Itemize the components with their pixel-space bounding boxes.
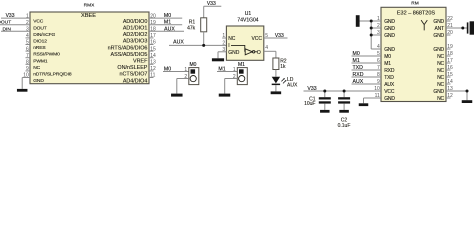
svg-text:ON/nSLEEP: ON/nSLEEP (117, 65, 147, 71)
resistor R2 1k (273, 58, 287, 70)
svg-text:VCC: VCC (251, 36, 262, 42)
svg-text:V33: V33 (275, 33, 284, 39)
svg-text:AD1/DIO1: AD1/DIO1 (123, 26, 148, 32)
ground at U1 (212, 58, 224, 61)
wire LED to ground (275, 85, 277, 91)
net DIN to XBEE pin 3 (1, 26, 30, 32)
junction V33/C2 (343, 90, 346, 93)
svg-text:1: 1 (184, 67, 187, 73)
svg-text:AD3/DIO3: AD3/DIO3 (123, 39, 148, 45)
U1 pin 1 NC stub (222, 37, 226, 39)
svg-text:47k: 47k (187, 25, 196, 31)
svg-text:NC: NC (228, 36, 236, 42)
svg-text:0.1uF: 0.1uF (338, 123, 351, 129)
antenna connector (467, 21, 474, 34)
svg-text:M0: M0 (384, 54, 391, 60)
svg-text:NC: NC (437, 61, 444, 67)
resistor R1 47k (187, 18, 207, 32)
junction V33/C1 (323, 90, 326, 93)
net AUX to E32 (352, 79, 382, 85)
svg-text:TXD: TXD (384, 75, 394, 81)
svg-text:VCC: VCC (33, 19, 44, 25)
svg-text:RSSI/PWM0: RSSI/PWM0 (33, 52, 60, 58)
svg-text:DIO12: DIO12 (33, 39, 47, 45)
svg-text:GND: GND (384, 47, 395, 53)
XBEE pin names and numbers (23, 13, 156, 84)
svg-text:TXD: TXD (353, 65, 364, 71)
junction pin2 bus (370, 27, 373, 30)
junction on ANT wire (461, 27, 464, 30)
svg-text:AUX: AUX (173, 40, 184, 46)
svg-text:74V1G04: 74V1G04 (237, 18, 258, 24)
svg-text:RMX: RMX (84, 2, 95, 8)
svg-text:M1: M1 (164, 20, 171, 26)
svg-text:E32 – 868T20S: E32 – 868T20S (397, 11, 436, 17)
net M0 to E32 (352, 51, 382, 57)
ground at M0 (171, 94, 183, 97)
svg-text:NC: NC (437, 96, 444, 102)
XBEE right no-connect stubs pins 17-11 (149, 38, 154, 78)
wire U1 pin 3 GND to ground (218, 52, 226, 59)
svg-text:NC: NC (33, 65, 40, 71)
inverter U1 74V1G04 (222, 11, 268, 60)
svg-text:RXD: RXD (384, 68, 395, 74)
svg-text:AD2/DIO2: AD2/DIO2 (123, 32, 148, 38)
ground at C1 (320, 110, 330, 113)
power flag V33 above R1 (204, 1, 222, 7)
wire M1 pin 2 to ground (225, 79, 238, 94)
svg-text:AUX: AUX (353, 79, 364, 85)
net DOUT to XBEE pin 2 (0, 20, 30, 26)
antenna symbol inside E32 (421, 20, 427, 30)
svg-text:O: O (257, 50, 261, 56)
net RXD to E32 (352, 72, 382, 78)
svg-text:GND: GND (228, 50, 240, 56)
svg-text:M1: M1 (238, 62, 245, 68)
ground at C2 (339, 110, 349, 113)
ground at E32 pin 13 (462, 100, 473, 103)
svg-text:GND: GND (384, 33, 395, 39)
sideways ground at E32 pins 1-3 (356, 15, 360, 27)
net V33 at U1 VCC pin 5 (264, 33, 288, 39)
wire R1 to AUX net (203, 32, 205, 46)
junction AUX/R1 (202, 44, 205, 47)
svg-text:ASS/AD5/DIO5: ASS/AD5/DIO5 (111, 52, 148, 58)
svg-text:GND: GND (433, 47, 444, 53)
wire XBEE pin 10 to ground (22, 78, 30, 89)
connector M1 (233, 62, 247, 84)
capacitor C2 0.1uF (338, 91, 351, 129)
svg-text:XBEE: XBEE (81, 13, 96, 19)
ground at E32 pin 11 (359, 103, 369, 106)
svg-text:V33: V33 (307, 86, 316, 92)
ground at XBEE pin 10 (17, 89, 28, 92)
svg-text:M1: M1 (218, 67, 225, 73)
svg-text:GND: GND (33, 78, 44, 84)
ground at LED (271, 91, 282, 94)
svg-text:nCTS/DIO7: nCTS/DIO7 (120, 72, 148, 78)
svg-text:NC: NC (437, 75, 444, 81)
svg-text:V33: V33 (207, 1, 216, 7)
junction pin1 bus (370, 20, 373, 23)
svg-text:VREF: VREF (133, 59, 148, 65)
svg-text:NC: NC (437, 68, 444, 74)
wire R2 to LED (275, 70, 277, 77)
svg-text:nRTS/AD6/DIO6: nRTS/AD6/DIO6 (108, 45, 148, 51)
svg-text:M1: M1 (384, 61, 391, 67)
wire M0 pin 2 to ground (177, 79, 189, 94)
wire U1 output pin 4 to R2 (264, 51, 276, 58)
net M1 to E32 (352, 58, 382, 64)
wire E32 pin 13 GND to ground (446, 91, 467, 100)
svg-text:1k: 1k (280, 64, 286, 70)
svg-text:nRES: nRES (33, 45, 46, 51)
wire E32 pin 11 GND to ground (364, 98, 382, 103)
junction pin3 bus (370, 34, 373, 37)
svg-text:M0: M0 (164, 67, 171, 73)
svg-text:GND: GND (433, 89, 444, 95)
svg-text:VCC: VCC (384, 89, 395, 95)
svg-text:4: 4 (265, 45, 268, 51)
wire V33 to R1 (203, 6, 205, 17)
svg-text:M0: M0 (164, 13, 171, 19)
svg-text:I: I (228, 43, 229, 49)
svg-text:GND: GND (384, 19, 395, 25)
svg-text:10uF: 10uF (304, 101, 315, 107)
svg-text:NC: NC (437, 54, 444, 60)
svg-text:V33: V33 (6, 13, 15, 19)
svg-text:AD4/DIO4: AD4/DIO4 (123, 78, 148, 84)
net V33 to XBEE pin 1 (1, 13, 30, 19)
svg-text:M0: M0 (353, 51, 360, 57)
net M0 from XBEE pin 20 (149, 13, 182, 19)
net AUX from XBEE pin 18 (149, 26, 184, 32)
svg-text:RXD: RXD (353, 72, 364, 78)
svg-text:DIN/nCFG: DIN/nCFG (33, 32, 55, 38)
net V33 to E32 VCC pin 10 (304, 86, 382, 92)
svg-text:GND: GND (384, 96, 395, 102)
svg-text:M1: M1 (353, 58, 360, 64)
XBEE module RMX (30, 2, 149, 83)
svg-text:DOUT: DOUT (33, 25, 47, 31)
svg-text:DIN: DIN (2, 26, 11, 32)
svg-text:GND: GND (433, 19, 444, 25)
XBEE left no-connect stubs pins 4-9 (26, 38, 31, 71)
RF module RM E32-868T20S (381, 1, 446, 102)
wires E32 pins 1-4 to ground bus (360, 21, 381, 49)
svg-text:DOUT: DOUT (0, 20, 11, 26)
net M1 from XBEE pin 19 (149, 20, 182, 26)
capacitor C1 10uF (304, 91, 331, 110)
svg-text:nDTR/SLPRQ/DI8: nDTR/SLPRQ/DI8 (33, 72, 72, 78)
svg-text:2: 2 (222, 41, 225, 47)
svg-text:NC: NC (437, 82, 444, 88)
net M0 wire to connector M0 (163, 67, 189, 73)
net TXD to E32 (352, 65, 382, 71)
svg-text:GND: GND (433, 33, 444, 39)
junction on pin 13 wire (466, 90, 469, 93)
net M1 wire to connector M1 (217, 67, 237, 73)
E32 pin names and numbers (374, 16, 453, 102)
svg-text:ANT: ANT (434, 26, 444, 32)
wire E32 ANT pin 21 to antenna connector (446, 27, 468, 29)
svg-text:PWM1: PWM1 (33, 58, 48, 64)
net AUX wire to U1 input (169, 40, 226, 46)
LED LD AUX (272, 77, 298, 89)
ground at M1 (219, 94, 231, 97)
svg-text:1: 1 (233, 67, 236, 73)
svg-text:AUX: AUX (384, 82, 395, 88)
svg-text:AUX: AUX (287, 83, 298, 89)
svg-text:AD0/DIO0: AD0/DIO0 (123, 19, 148, 25)
svg-text:RM: RM (411, 1, 418, 7)
svg-text:M0: M0 (190, 62, 197, 68)
connector M0 (184, 62, 198, 84)
svg-text:AUX: AUX (164, 26, 175, 32)
svg-text:U1: U1 (245, 11, 252, 17)
svg-text:GND: GND (384, 26, 395, 32)
E32 right no-connect stubs (446, 21, 451, 98)
